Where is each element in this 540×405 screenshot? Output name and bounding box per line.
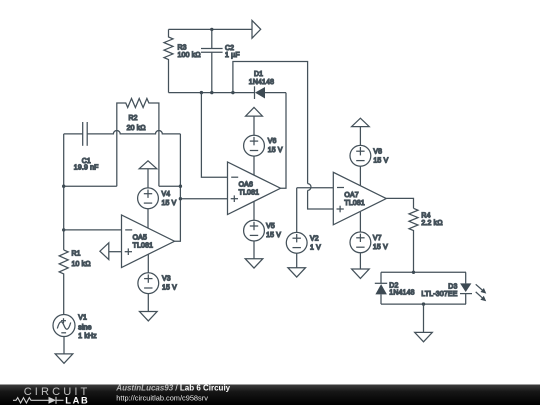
- svg-text:15 V: 15 V: [162, 285, 177, 292]
- node flag arrow left at OA5 plus: [100, 243, 122, 260]
- wire bus R3/C2/D1 node: [169, 92, 255, 94]
- resistor R2: [117, 99, 159, 187]
- svg-text:V1: V1: [78, 315, 87, 322]
- footer bar: [0, 385, 540, 405]
- voltage source V5: [244, 201, 282, 258]
- wire OA5 minus: [64, 229, 122, 231]
- wire OA7 output to R4: [386, 198, 413, 208]
- wire bus loop to OA7 plus (with hop): [233, 62, 308, 184]
- voltage source V6: [244, 116, 283, 175]
- LED D3: [421, 272, 486, 304]
- svg-text:1 µF: 1 µF: [225, 52, 240, 59]
- svg-text:15 V: 15 V: [373, 244, 388, 251]
- svg-text:15 V: 15 V: [162, 200, 177, 207]
- svg-text:V8: V8: [373, 148, 382, 155]
- svg-text:V7: V7: [373, 235, 382, 242]
- svg-text:V2: V2: [310, 235, 319, 242]
- voltage source V2: [286, 188, 321, 268]
- svg-text:100 kΩ: 100 kΩ: [178, 52, 201, 59]
- junction dot bus to OA6 minus: [200, 91, 203, 94]
- ground under V1: [55, 354, 73, 363]
- op-amp OA7: [333, 172, 386, 225]
- wire D2/D3 box top: [381, 271, 466, 273]
- svg-text:D3: D3: [448, 283, 457, 290]
- svg-text:V6: V6: [268, 138, 277, 145]
- svg-text:1N4148: 1N4148: [249, 79, 274, 86]
- svg-text:R4: R4: [421, 213, 430, 220]
- junction dot box ground: [422, 302, 425, 305]
- svg-text:OA6: OA6: [239, 182, 253, 189]
- wire hop: [308, 184, 311, 191]
- op-amp OA5: [122, 215, 175, 268]
- svg-text:V5: V5: [266, 223, 275, 230]
- voltage source V8: [350, 127, 389, 186]
- wire V2 to OA7 minus: [297, 187, 334, 189]
- wire D2/D3 box bottom: [381, 303, 466, 305]
- svg-text:TL081: TL081: [133, 243, 154, 250]
- svg-text:2.2 kΩ: 2.2 kΩ: [421, 220, 442, 227]
- ground under V2: [288, 268, 306, 277]
- svg-text:1N4148: 1N4148: [389, 290, 414, 297]
- capacitor C2: [201, 29, 240, 92]
- junction dot bus loop: [231, 91, 234, 94]
- svg-text:AustinLucas93 / Lab 6 Circuiy: AustinLucas93 / Lab 6 Circuiy: [115, 384, 230, 393]
- svg-text:D1: D1: [254, 71, 263, 78]
- junction dot bus C2 bottom: [210, 91, 213, 94]
- svg-text:20 kΩ: 20 kΩ: [127, 125, 146, 132]
- wire R2 left leg to node A: [64, 185, 117, 187]
- svg-text:15 V: 15 V: [268, 147, 283, 154]
- junction dot R4 box: [412, 271, 415, 274]
- node flag arrow up above V6: [246, 107, 263, 116]
- svg-text:http://circuitlab.com/c958srv: http://circuitlab.com/c958srv: [116, 394, 208, 403]
- ground under V3: [140, 312, 158, 321]
- node flag arrow up above V8: [352, 118, 370, 126]
- node flag arrow right: [252, 20, 261, 38]
- wire top R3/C2 to flag: [169, 28, 253, 30]
- logo icon wire resistor diode: [13, 397, 64, 404]
- junction dot node B OA6 plus: [179, 197, 182, 200]
- svg-text:1 V: 1 V: [310, 244, 321, 251]
- junction dot node A OA5 minus: [62, 228, 65, 231]
- svg-text:TL081: TL081: [344, 200, 365, 207]
- ground under D2/D3: [415, 332, 433, 341]
- svg-text:R2: R2: [129, 115, 138, 122]
- svg-text:TL081: TL081: [239, 190, 260, 197]
- capacitor C1: [64, 122, 181, 172]
- svg-text:R3: R3: [178, 44, 187, 51]
- voltage source V4: [138, 169, 177, 228]
- resistor R3: [164, 29, 201, 92]
- wire OA6 output to D1: [281, 93, 287, 189]
- svg-text:10 kΩ: 10 kΩ: [72, 261, 91, 268]
- resistor R4: [409, 208, 443, 272]
- svg-text:LTL-307EE: LTL-307EE: [421, 291, 457, 298]
- wire node A vertical: [63, 134, 65, 250]
- svg-text:V3: V3: [162, 276, 171, 283]
- op-amp OA6: [228, 162, 281, 215]
- node flag arrow up above V4: [139, 161, 157, 169]
- diode D1: [249, 71, 286, 99]
- ground under V7: [352, 269, 370, 278]
- ground under V5: [245, 259, 263, 268]
- wire OA6 plus to node B: [180, 198, 227, 200]
- voltage source V7: [350, 212, 388, 269]
- svg-text:LAB: LAB: [65, 395, 89, 405]
- svg-text:V4: V4: [162, 191, 171, 198]
- wire box to ground: [423, 304, 425, 332]
- svg-text:1 kHz: 1 kHz: [78, 333, 97, 340]
- svg-text:OA5: OA5: [133, 235, 147, 242]
- svg-text:sine: sine: [78, 324, 91, 331]
- voltage source V3: [138, 254, 177, 311]
- junction dot C2 top: [210, 28, 213, 31]
- svg-text:D2: D2: [389, 283, 398, 290]
- wire OA6 minus to bus: [201, 93, 227, 178]
- junction dot node B R2 leg: [179, 185, 182, 188]
- svg-text:R1: R1: [72, 250, 81, 257]
- wire to OA7 plus: [308, 190, 334, 209]
- svg-text:OA7: OA7: [344, 192, 358, 199]
- resistor R1: [59, 250, 90, 314]
- voltage source V1 sine: [53, 315, 97, 354]
- svg-text:19.9 nF: 19.9 nF: [74, 165, 99, 172]
- diode D2: [375, 272, 415, 304]
- junction dot node A R2: [62, 185, 65, 188]
- wire R2 right leg to node B: [159, 185, 181, 187]
- svg-text:15 V: 15 V: [266, 232, 281, 239]
- wire node B vertical (OA5 out): [175, 134, 181, 241]
- svg-text:C2: C2: [225, 45, 234, 52]
- svg-text:15 V: 15 V: [373, 157, 388, 164]
